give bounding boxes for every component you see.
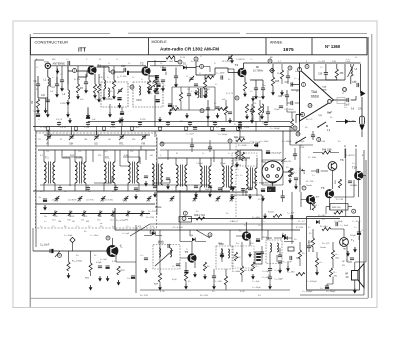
svg-text:5n: 5n [62, 89, 64, 91]
svg-text:C₁₄: C₁₄ [214, 103, 217, 105]
resistor R46 [331, 250, 334, 259]
resistor R7 [203, 80, 206, 89]
transformer IF6 [152, 164, 163, 186]
gang trimmer CV3 [46, 134, 51, 140]
transformer IF2 [75, 162, 86, 184]
resistor R29 [158, 273, 161, 282]
coil L7 small [262, 104, 264, 113]
svg-text:C₃₆: C₃₆ [262, 221, 265, 223]
svg-text:C30: C30 [318, 74, 323, 76]
ground speaker [353, 288, 357, 294]
ground g28 [248, 194, 252, 200]
fm coil L5 [139, 86, 141, 95]
svg-text:R 12k: R 12k [244, 127, 249, 129]
detector net box [172, 87, 215, 110]
page right border outer [371, 34, 373, 298]
bus cap stub 5 [189, 121, 191, 126]
output dashed box [266, 238, 282, 264]
svg-text:R45-750: R45-750 [332, 207, 341, 209]
texture w20 [35, 131, 37, 133]
T4 wires [112, 238, 136, 262]
svg-text:R₂: R₂ [95, 99, 98, 101]
capacitor C24 [144, 258, 148, 260]
op-amp U1 TAA661B [300, 70, 334, 122]
svg-text:C₃₀: C₃₀ [88, 226, 91, 228]
electrolytic C5d [36, 114, 40, 117]
top band verticals [57, 66, 114, 84]
svg-text:R38: R38 [303, 170, 305, 175]
ground under C14 [194, 90, 198, 96]
svg-text:C₃₈-5μF: C₃₈-5μF [262, 271, 270, 273]
transistor T5 [187, 253, 196, 262]
C41 wires [358, 222, 360, 240]
svg-text:R1: R1 [31, 100, 34, 104]
svg-text:OM: OM [58, 221, 62, 223]
svg-text:R₂₆-2700: R₂₆-2700 [146, 217, 155, 219]
svg-text:AU-OKL: AU-OKL [284, 160, 292, 163]
bus cap stub 3 [139, 121, 141, 126]
svg-text:L8: L8 [355, 69, 358, 71]
svg-text:ral: ral [100, 223, 103, 225]
C30 wires [325, 64, 327, 80]
ground T8 emitter [346, 251, 350, 257]
diamond test symbol [270, 68, 275, 73]
svg-text:C₉: C₉ [116, 59, 118, 61]
svg-text:683: 683 [52, 59, 56, 61]
transformer IF10 [246, 168, 257, 190]
svg-text:HP: HP [342, 261, 345, 263]
svg-text:R₃₇: R₃₇ [236, 175, 239, 177]
svg-text:470: 470 [334, 276, 338, 278]
relay box small [179, 217, 192, 223]
svg-text:R₃₆: R₃₆ [302, 253, 305, 255]
svg-text:R 680: R 680 [60, 103, 66, 105]
L8 wires [350, 64, 352, 80]
resistor Rdet [179, 92, 182, 101]
svg-text:C₃₈-50μF: C₃₈-50μF [252, 287, 261, 289]
capacitor Cg pair a [281, 196, 285, 198]
R13b wires [252, 100, 254, 121]
resistor R20 [67, 262, 70, 271]
diag wire a [130, 224, 150, 236]
R9 wires [272, 64, 274, 90]
circled G top [305, 65, 309, 69]
cluster bottom wires [326, 207, 352, 214]
bus cap stub 7 [239, 121, 241, 126]
mid area bus [158, 157, 250, 159]
diamond wires [55, 243, 73, 262]
circled tp above T4 [106, 236, 110, 240]
svg-text:R₁₅ 4,7: R₁₅ 4,7 [232, 221, 239, 223]
capacitor C19c [241, 189, 245, 191]
tuner slug 1 [53, 211, 58, 217]
bus res 7 [237, 127, 240, 130]
vertical wire x283 [282, 131, 284, 150]
svg-text:1,5nF: 1,5nF [345, 61, 351, 63]
stepped jumper a [63, 157, 82, 164]
ground g31 [230, 194, 234, 200]
electrolytic C41 [357, 232, 361, 235]
resistor R41 [236, 138, 245, 141]
ifb cap stub 2 [115, 185, 117, 191]
electrolytic C25b [220, 254, 224, 257]
magneto wires [262, 150, 283, 164]
T2 emitter wire [148, 75, 150, 81]
mid long bus y146 [36, 145, 156, 147]
svg-text:L₂₃: L₂₃ [112, 226, 115, 228]
resistor R9 [271, 77, 274, 86]
svg-text:A: A [344, 144, 346, 148]
U1 input wire b [291, 89, 300, 91]
fuse wire [361, 97, 363, 116]
resistor Rf1 [258, 106, 261, 115]
circled 9 [317, 138, 321, 142]
svg-text:R3: R3 [80, 87, 84, 90]
svg-text:R₃ 56k: R₃ 56k [74, 79, 80, 81]
gang trimmer CV5 [94, 134, 99, 140]
svg-text:C₁₇ 10nF: C₁₇ 10nF [186, 134, 195, 136]
transformer box M592 [153, 242, 180, 270]
bus y224 [150, 223, 306, 225]
electrolytic C25 [131, 276, 135, 279]
svg-text:T₁: T₁ [86, 59, 88, 61]
test point 1 [111, 70, 115, 74]
long vertical x262 [261, 195, 263, 230]
svg-text:N° 1360: N° 1360 [325, 44, 341, 49]
capacitor C1 [36, 84, 40, 86]
transistor T7 [306, 195, 315, 204]
svg-text:C₂₄: C₂₄ [141, 255, 144, 257]
capacitor C20 [218, 188, 222, 190]
svg-text:B: B [355, 144, 357, 148]
svg-text:L₆: L₆ [160, 67, 162, 69]
capacitor C15 pair a [254, 88, 258, 90]
svg-text:L₁₂: L₁₂ [88, 191, 91, 193]
if row bottom bus [33, 190, 230, 192]
svg-text:C₂₇: C₂₇ [294, 78, 297, 80]
svg-text:EUR: EUR [70, 216, 75, 218]
ground C5 [60, 86, 64, 92]
svg-text:R₄₅-560: R₄₅-560 [318, 141, 326, 143]
R4 wires [113, 72, 115, 94]
ground under R5 [147, 89, 151, 95]
U1 pin 6 [301, 113, 305, 117]
svg-text:L₇: L₇ [192, 91, 194, 93]
svg-text:R51: R51 [313, 205, 318, 207]
svg-text:L₉: L₉ [160, 155, 162, 157]
capacitor Cvol [293, 154, 297, 156]
stepped jumper d [152, 179, 170, 183]
ground g7 [260, 114, 264, 120]
svg-text:C₃₆-10nF: C₃₆-10nF [260, 141, 269, 143]
transistor T6 [328, 162, 337, 171]
svg-text:R 220: R 220 [140, 119, 146, 121]
capacitor C4 [55, 84, 59, 86]
capacitor Cf2 [266, 112, 270, 114]
svg-text:T10: T10 [352, 166, 357, 170]
svg-text:D₁: D₁ [214, 63, 217, 65]
svg-text:C₁₆-10nF: C₁₆-10nF [40, 245, 50, 247]
svg-text:F 1: F 1 [40, 155, 44, 157]
texture w11 [229, 230, 231, 246]
svg-text:R₈: R₈ [228, 79, 230, 81]
svg-text:C₁₁: C₁₁ [132, 77, 135, 79]
variable coil L8 [351, 67, 353, 76]
bus cap 6 [213, 123, 217, 125]
ground g12 [288, 178, 292, 184]
svg-text:F 1: F 1 [45, 156, 49, 160]
texture w8 [255, 121, 257, 131]
capacitor C24b [212, 276, 216, 278]
ground g11 [43, 205, 47, 211]
svg-text:T6: T6 [340, 158, 344, 162]
stepped jumper b [94, 176, 112, 183]
bus cap 8 [264, 123, 268, 125]
ground g5 [228, 118, 232, 124]
capacitor C19b [248, 188, 252, 190]
page right border inner [367, 37, 369, 298]
ground g17 [106, 276, 110, 282]
svg-text:T₃ BF195: T₃ BF195 [236, 59, 245, 61]
wire L1 to node [38, 86, 48, 98]
capacitor C19 [194, 186, 198, 188]
down arrow at T3 top [230, 58, 234, 64]
transistor T9 [325, 189, 334, 198]
resistor R33 [234, 252, 237, 261]
bus res 3 [131, 127, 134, 130]
transistor T4 [106, 245, 118, 257]
page bottom edge line [30, 297, 368, 299]
svg-text:C₂₆: C₂₆ [258, 225, 261, 227]
svg-text:FM: FM [142, 143, 145, 146]
texture w9 [290, 144, 313, 146]
svg-text:4,7k: 4,7k [308, 242, 312, 244]
R7 wires [204, 75, 206, 93]
ground T5 [193, 272, 197, 278]
f1 stubs [252, 100, 260, 121]
svg-text:L15 RTL: L15 RTL [86, 200, 95, 202]
ifb cap stub 1 [87, 185, 89, 191]
ground g6 [245, 114, 249, 120]
svg-text:R₁₅ 4,7: R₁₅ 4,7 [298, 221, 305, 223]
svg-text:C4: C4 [52, 86, 56, 89]
test point circle 61 [235, 96, 239, 100]
svg-text:R₂₁: R₂₁ [84, 231, 87, 233]
svg-text:C10: C10 [121, 65, 126, 68]
electrolytic C7e [120, 112, 124, 115]
det stubs [181, 87, 189, 110]
circled G1 [160, 142, 164, 146]
svg-text:3Ω: 3Ω [342, 265, 345, 267]
svg-text:7: 7 [250, 167, 252, 169]
texture w4 [114, 208, 116, 230]
coil L3 [104, 80, 106, 89]
resistor R27v [184, 272, 187, 281]
test point 2 [194, 57, 198, 61]
svg-text:C₄₅: C₄₅ [346, 260, 349, 262]
circled R [58, 253, 62, 257]
capacitor C42 [348, 181, 352, 183]
svg-text:14: 14 [296, 91, 299, 93]
M96 coil a [221, 249, 223, 258]
diode D5 [284, 236, 287, 240]
ground R30 [203, 274, 207, 280]
capacitor C48 [278, 255, 282, 257]
svg-text:M592: M592 [158, 241, 164, 243]
ground under R4 [112, 94, 116, 100]
svg-text:C₉: C₉ [186, 76, 189, 78]
svg-text:C₁₈ 100μF: C₁₈ 100μF [218, 134, 228, 136]
svg-text:T₈: T₈ [351, 238, 354, 242]
bus cap 7 [238, 123, 242, 125]
resistor Rf3 [290, 119, 293, 128]
oscillator coil L4 [108, 88, 110, 97]
svg-text:4,7k: 4,7k [112, 261, 116, 263]
svg-text:R₂₀-4,7kΩ: R₂₀-4,7kΩ [72, 261, 82, 263]
out mid wires [288, 242, 300, 266]
svg-text:C₁₅: C₁₅ [250, 91, 253, 93]
svg-text:L₃: L₃ [107, 77, 109, 79]
U1 pin 12 [328, 100, 332, 104]
diode D7 [316, 220, 319, 224]
svg-text:1975: 1975 [283, 47, 294, 53]
svg-text:C₄₁: C₄₁ [354, 227, 357, 229]
DIN socket prise magneto [262, 161, 283, 183]
texture w15 [345, 149, 347, 159]
svg-text:C₁₁: C₁₁ [163, 85, 166, 87]
svg-text:OM: OM [67, 220, 71, 222]
svg-text:4,7Ω: 4,7Ω [160, 291, 165, 293]
svg-text:UnF: UnF [327, 112, 332, 115]
gang trimmer CV6 [119, 134, 124, 140]
ground under C4 [55, 92, 59, 98]
resistor R3 [76, 84, 79, 93]
diode D5b [282, 234, 285, 238]
output rail box [307, 217, 360, 291]
coil L7 core [200, 88, 202, 98]
svg-text:R₄₉: R₄₉ [334, 272, 337, 274]
svg-text:R₅: R₅ [152, 83, 154, 85]
left vertical rail [34, 60, 36, 131]
resistor R37v [235, 150, 238, 159]
svg-text:C₈: C₈ [160, 63, 163, 65]
U1 input wire a [291, 84, 300, 86]
svg-text:C₃: C₃ [172, 266, 175, 268]
circled G2 [228, 139, 232, 143]
texture w6 [230, 194, 262, 196]
svg-text:R: R [59, 254, 61, 258]
gang trimmer CV4 [69, 134, 74, 140]
arrow mid wire [336, 121, 356, 123]
svg-text:RTL: RTL [84, 216, 89, 218]
bus res 4 [159, 127, 162, 130]
svg-text:2,2n: 2,2n [150, 226, 154, 228]
T1 base wire [68, 66, 88, 90]
T2 collector wire [148, 62, 167, 67]
resistor R31b [251, 262, 254, 271]
svg-text:GO: GO [97, 220, 101, 222]
switch contact mid [317, 122, 328, 128]
dashed box driver [232, 246, 254, 268]
resistor R31 [240, 266, 243, 275]
svg-text:Tandis: Tandis [306, 185, 312, 187]
svg-text:R.M: R.M [98, 216, 102, 218]
svg-text:L₂₂: L₂₂ [76, 226, 79, 228]
svg-text:47k: 47k [138, 226, 141, 228]
ground T8 [353, 247, 357, 253]
bm stubs [186, 248, 222, 284]
capacitor C21 [43, 199, 47, 202]
svg-text:L₁₁: L₁₁ [64, 191, 67, 193]
transistor T5b [242, 231, 251, 240]
ground g14 [67, 273, 71, 279]
svg-text:R₂₈: R₂₈ [226, 213, 229, 215]
T5 wires [180, 242, 195, 269]
svg-text:C₃₉-100μF: C₃₉-100μF [326, 291, 336, 293]
dashed mid line [160, 142, 250, 144]
ground Cm3 [134, 194, 138, 200]
if row bottom bus3 [36, 203, 155, 205]
bus res 0 [47, 127, 50, 130]
fuse down wire [361, 131, 363, 137]
circled 13 [343, 88, 347, 92]
svg-text:1nF: 1nF [41, 94, 46, 97]
gang riser c [96, 131, 98, 135]
C34 wires [312, 131, 314, 140]
ifb cap 0 [58, 188, 62, 190]
fuse F1 [360, 116, 365, 125]
svg-text:GO: GO [72, 221, 76, 223]
svg-text:C₁₆-10nF: C₁₆-10nF [90, 235, 99, 237]
resistor R13b [251, 106, 254, 115]
svg-text:9,6: 9,6 [351, 109, 355, 111]
ground C24b [212, 284, 216, 290]
svg-text:C₅: C₅ [38, 119, 41, 121]
bus cap stub 8 [265, 121, 267, 126]
svg-text:R₈ 4,7k: R₈ 4,7k [226, 93, 234, 95]
ground g16 [98, 276, 102, 282]
capacitor C45 [350, 258, 354, 260]
svg-text:C₅ 12p: C₅ 12p [40, 127, 47, 129]
svg-text:CONSTRUCTEUR: CONSTRUCTEUR [35, 40, 69, 45]
pin6 wires [287, 101, 296, 112]
ground under C15b [261, 94, 265, 100]
svg-text:R₂₉ 2,2k: R₂₉ 2,2k [244, 270, 253, 272]
svg-text:C₃₂: C₃₂ [344, 107, 347, 109]
L8 arrow [348, 64, 355, 77]
svg-text:70k: 70k [33, 111, 36, 113]
svg-text:5nF: 5nF [80, 99, 84, 101]
svg-text:D₁ OA70: D₁ OA70 [191, 60, 200, 63]
resistor R42v [290, 168, 293, 177]
svg-text:L₁₄: L₁₄ [136, 191, 139, 193]
svg-text:T7: T7 [316, 195, 320, 199]
ground under C13 [174, 82, 178, 88]
svg-text:R₄₅-750: R₄₅-750 [336, 199, 344, 201]
long vertical x180 [179, 196, 181, 242]
wire D1 output [187, 62, 197, 75]
M96 coil b [228, 249, 230, 258]
ground under C15a [254, 94, 258, 100]
svg-text:R₄₃: R₄₃ [286, 167, 289, 169]
ground g10 [194, 192, 198, 198]
svg-text:R29: R29 [154, 284, 159, 286]
svg-text:1nF: 1nF [50, 91, 54, 93]
svg-text:10,7MHz: 10,7MHz [253, 70, 264, 73]
ground Cm4 [153, 192, 157, 198]
svg-text:FI: FI [176, 153, 178, 155]
coil L7c [206, 89, 208, 98]
